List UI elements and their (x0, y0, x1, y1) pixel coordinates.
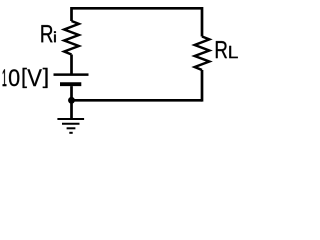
wire junction to ground (70, 100, 73, 119)
wire top horizontal (72, 7, 202, 10)
text label 10[V] - ] (43, 68, 48, 88)
text label 10[V] - V (27, 69, 41, 86)
resistor Ri (64, 21, 79, 55)
ground (57, 119, 84, 133)
wire battery to junction (70, 86, 73, 100)
text label RL - L subscript (229, 46, 238, 58)
text label 10[V] - 1 (3, 69, 7, 86)
wire Ri bottom to battery (70, 55, 73, 74)
text label Ri - i subscript (54, 31, 56, 42)
node junction dot (68, 97, 75, 104)
text label 10[V] - 0 (9, 69, 19, 86)
wire bottom horizontal (72, 99, 203, 102)
battery V1 bottom plate (60, 82, 81, 86)
battery V1 top plate (54, 73, 89, 76)
wire left vertical (top corner to Ri top) (70, 7, 73, 21)
wire RL bottom to corner (201, 70, 204, 102)
resistor RL (195, 37, 210, 71)
text label Ri - R (41, 25, 52, 42)
text label RL - R (216, 41, 227, 58)
text label 10[V] - [ (23, 68, 27, 88)
wire right vertical (top corner to RL top) (201, 7, 204, 37)
